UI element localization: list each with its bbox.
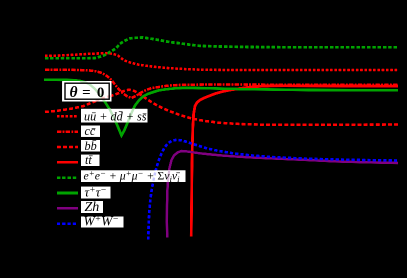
curve blue dashed WW	[148, 140, 398, 240]
svg-text:=: =	[82, 85, 91, 101]
legend row 6 tau tau	[81, 187, 111, 199]
svg-text:tt̄: tt̄	[85, 153, 93, 167]
curve green solid tau tau	[44, 80, 398, 136]
legend row 2 cc	[81, 126, 100, 137]
curve red dotted uu+dd+ss	[45, 53, 398, 70]
legend	[57, 102, 186, 229]
svg-text:0: 0	[97, 85, 105, 101]
legend row 3 bb	[81, 140, 100, 152]
legend row 4 tt	[81, 155, 100, 166]
legend row 7 Zh	[81, 201, 103, 213]
svg-text:uū + dd̄ + ss̄: uū + dd̄ + ss̄	[84, 110, 147, 124]
curve red dashed bb	[45, 90, 398, 125]
svg-text:θ: θ	[69, 84, 77, 101]
legend row 1 uu+dd+ss	[81, 109, 147, 123]
svg-text:e+e− + μ+μ− + Σνiν̄i: e+e− + μ+μ− + Σνiν̄i	[84, 168, 181, 184]
legend row 8 WW	[81, 217, 124, 228]
curve green dashed e+e-+mu+mu-+nunu	[45, 38, 398, 59]
curve red dash-dot cc	[45, 70, 398, 98]
pale green curve seen through title box	[80, 81, 111, 110]
curve red solid tt	[191, 86, 398, 237]
svg-text:bb̄: bb̄	[85, 139, 97, 153]
svg-text:cc̄: cc̄	[85, 124, 96, 138]
curve purple solid Zh	[167, 151, 398, 238]
legend row 5 leptons	[81, 170, 186, 181]
title box theta=0	[62, 81, 111, 110]
